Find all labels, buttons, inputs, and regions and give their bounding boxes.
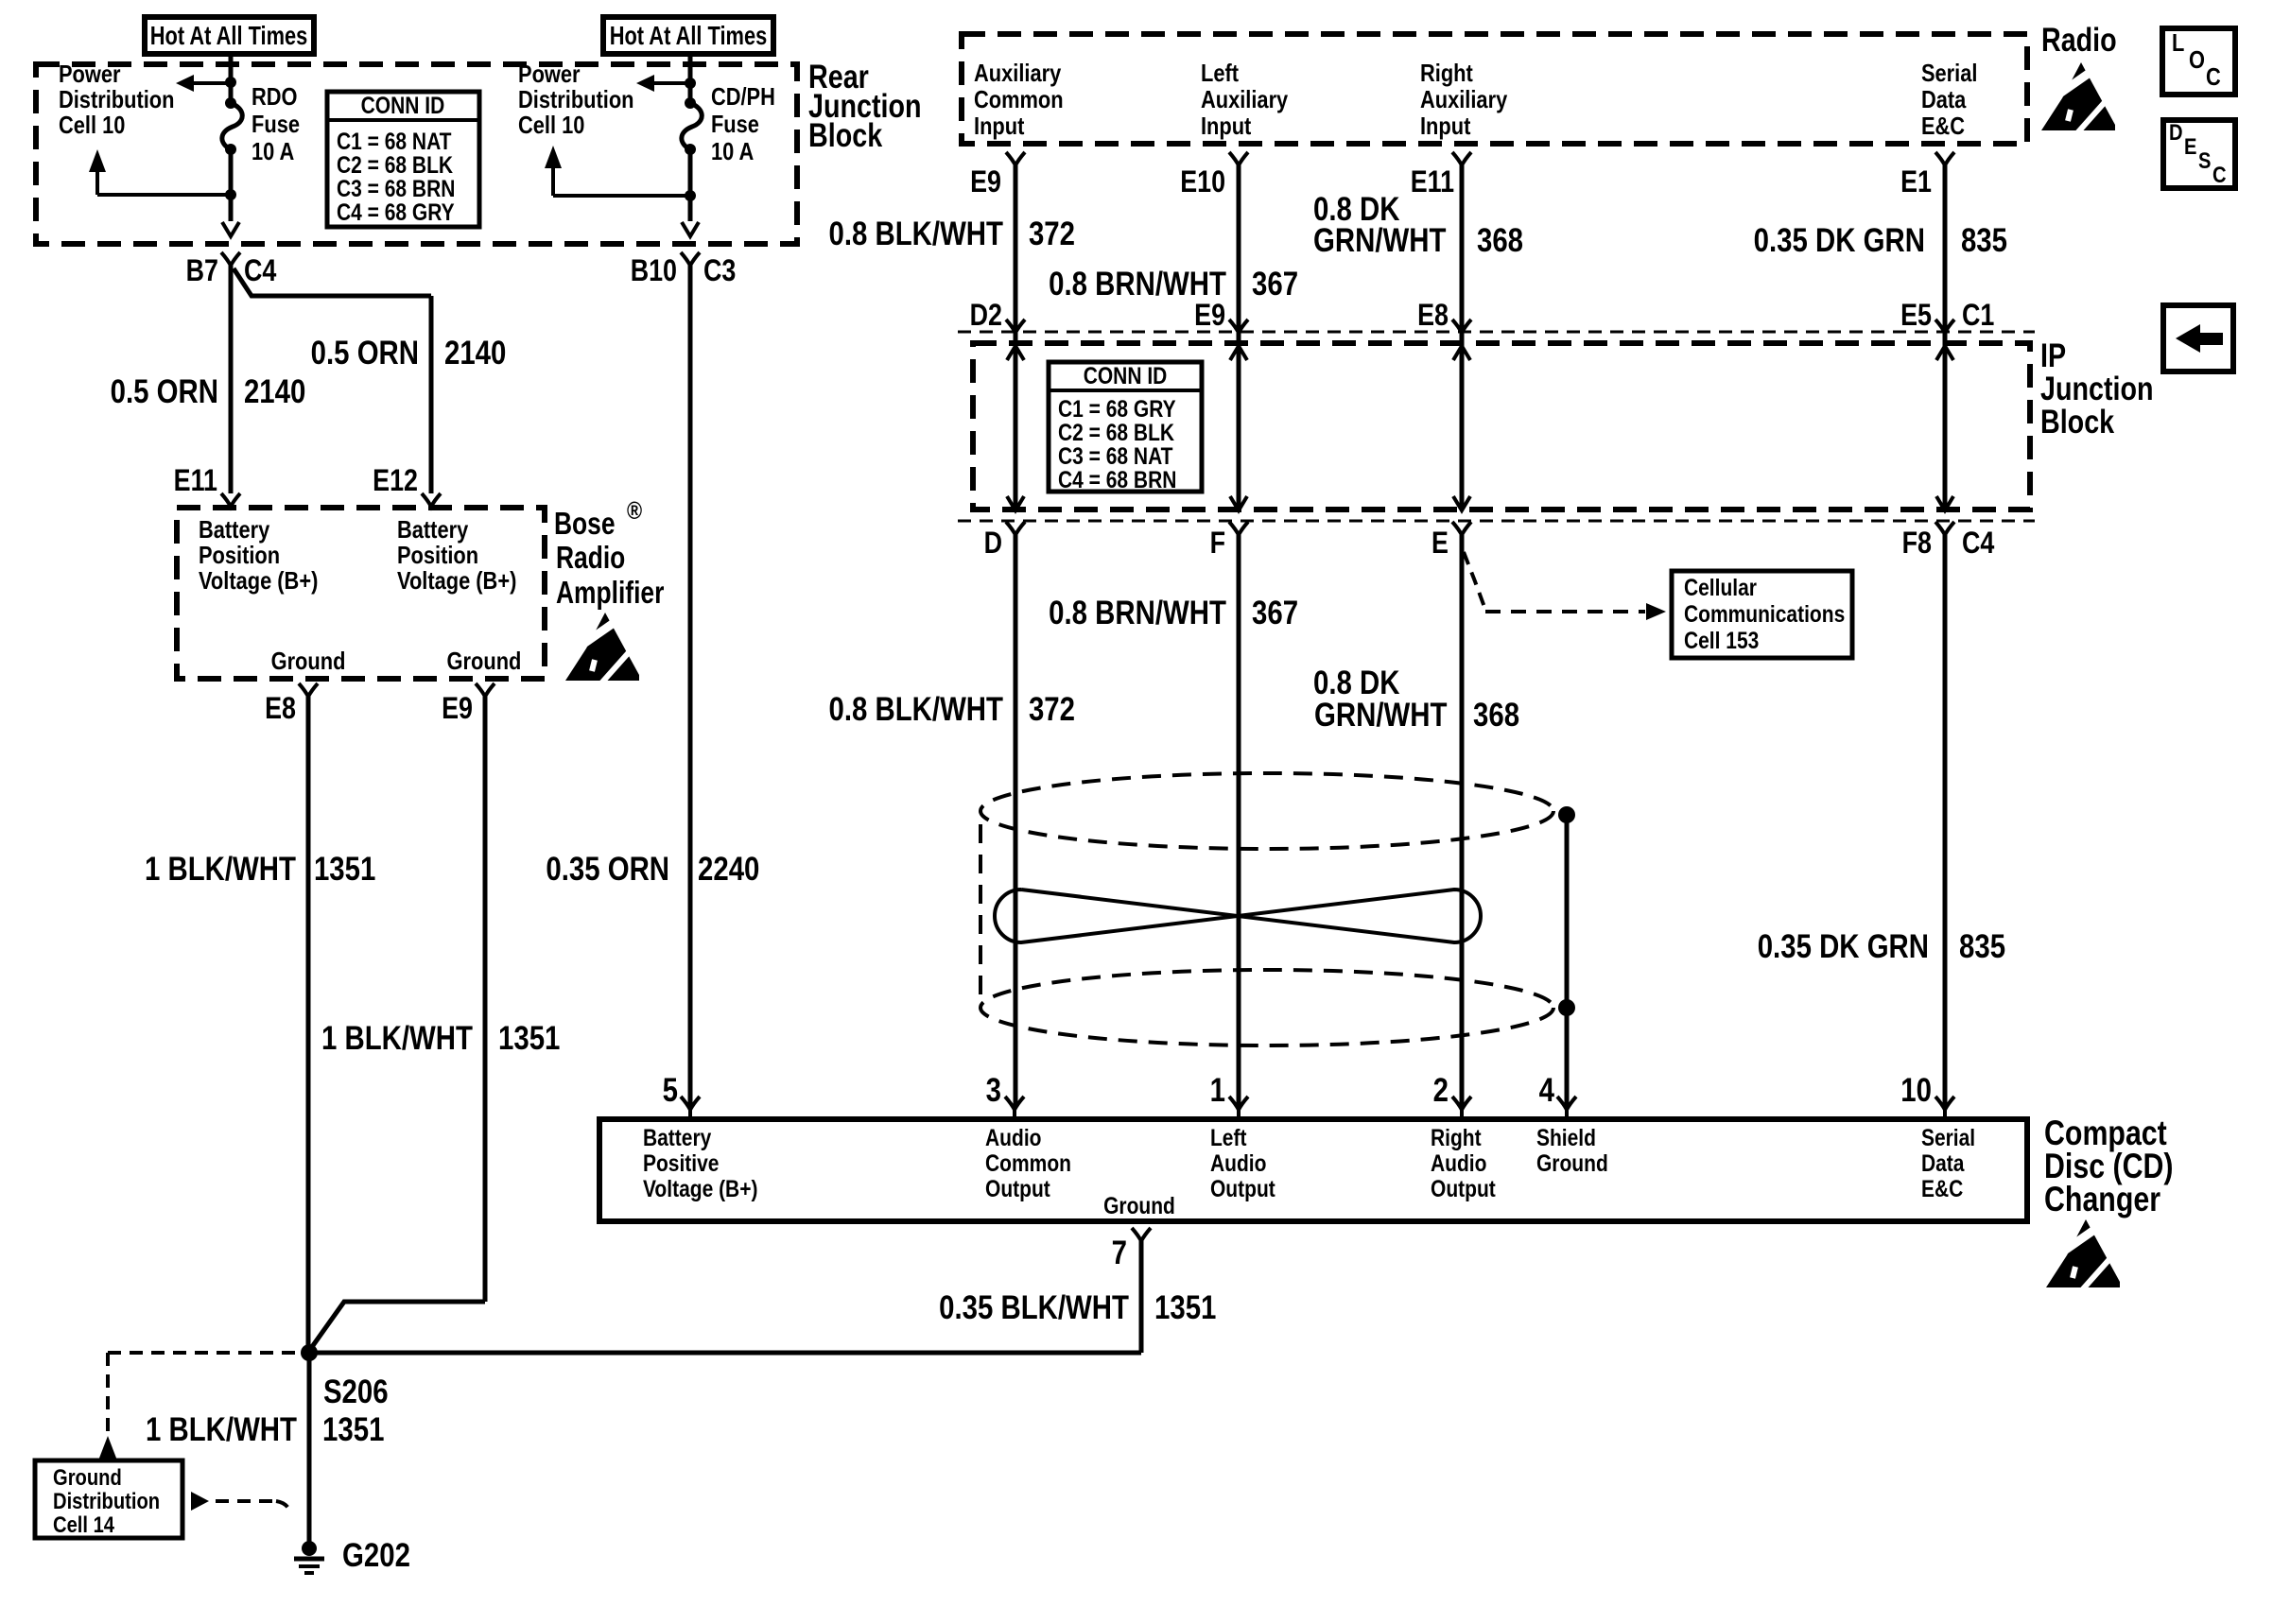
svg-text:C1 = 68 NAT: C1 = 68 NAT — [337, 128, 452, 154]
svg-text:®: ® — [627, 497, 642, 525]
svg-text:Serial: Serial — [1921, 1124, 1975, 1150]
svg-text:1351: 1351 — [1154, 1289, 1216, 1326]
svg-text:Position: Position — [199, 542, 280, 569]
svg-text:S206: S206 — [323, 1373, 389, 1410]
svg-text:E&C: E&C — [1921, 1175, 1964, 1201]
svg-text:Common: Common — [985, 1149, 1071, 1176]
svg-text:2140: 2140 — [244, 373, 305, 410]
svg-text:F8: F8 — [1902, 527, 1932, 561]
svg-text:Block: Block — [2040, 403, 2114, 440]
svg-text:C4: C4 — [244, 254, 277, 288]
svg-text:Distribution: Distribution — [59, 86, 174, 113]
svg-text:Communications: Communications — [1684, 600, 1845, 627]
svg-text:C2 = 68 BLK: C2 = 68 BLK — [337, 151, 453, 178]
svg-text:Voltage (B+): Voltage (B+) — [397, 567, 516, 595]
svg-text:Hot At All Times: Hot At All Times — [150, 21, 308, 50]
svg-text:Left: Left — [1201, 60, 1239, 87]
svg-text:1351: 1351 — [314, 851, 375, 888]
svg-text:Fuse: Fuse — [711, 111, 759, 138]
svg-text:Amplifier: Amplifier — [556, 576, 665, 610]
svg-text:Data: Data — [1921, 1149, 1965, 1176]
svg-text:Battery: Battery — [643, 1124, 711, 1150]
svg-text:Auxiliary: Auxiliary — [1201, 86, 1289, 113]
svg-text:1: 1 — [1210, 1072, 1225, 1109]
svg-text:1 BLK/WHT: 1 BLK/WHT — [321, 1020, 473, 1057]
svg-text:4: 4 — [1539, 1072, 1554, 1109]
svg-text:0.5 ORN: 0.5 ORN — [311, 335, 419, 371]
svg-text:E9: E9 — [970, 165, 1001, 199]
svg-text:D: D — [984, 527, 1002, 561]
svg-text:C1: C1 — [1962, 299, 1994, 333]
svg-text:E9: E9 — [1194, 299, 1225, 333]
svg-text:C4: C4 — [1962, 527, 1995, 561]
svg-text:G202: G202 — [342, 1537, 410, 1574]
svg-text:Ground: Ground — [1103, 1192, 1175, 1218]
svg-text:O: O — [2189, 46, 2205, 74]
svg-text:C2 = 68 BLK: C2 = 68 BLK — [1058, 419, 1174, 445]
svg-text:Serial: Serial — [1921, 60, 1977, 87]
svg-text:Block: Block — [808, 116, 882, 153]
svg-text:GRN/WHT: GRN/WHT — [1314, 697, 1448, 734]
svg-text:Cellular: Cellular — [1684, 574, 1757, 600]
svg-text:E11: E11 — [174, 464, 217, 498]
svg-text:D: D — [2169, 119, 2183, 145]
svg-text:E5: E5 — [1900, 299, 1932, 333]
svg-text:E&C: E&C — [1921, 112, 1965, 140]
svg-text:Common: Common — [974, 86, 1064, 113]
svg-text:E10: E10 — [1180, 165, 1225, 199]
svg-text:CONN ID: CONN ID — [1084, 362, 1168, 389]
svg-text:C: C — [2206, 63, 2221, 91]
svg-text:Radio: Radio — [556, 541, 625, 575]
svg-text:0.35 BLK/WHT: 0.35 BLK/WHT — [939, 1289, 1129, 1326]
svg-text:Voltage (B+): Voltage (B+) — [643, 1175, 758, 1201]
svg-text:1351: 1351 — [322, 1411, 384, 1448]
svg-text:Battery: Battery — [199, 516, 270, 544]
svg-text:372: 372 — [1029, 216, 1075, 252]
svg-text:368: 368 — [1477, 222, 1523, 259]
svg-text:D2: D2 — [970, 299, 1002, 333]
svg-text:C4 = 68 GRY: C4 = 68 GRY — [337, 199, 455, 225]
svg-text:RDO: RDO — [252, 83, 298, 111]
svg-text:Output: Output — [985, 1175, 1050, 1201]
svg-text:10 A: 10 A — [252, 138, 294, 165]
svg-text:7: 7 — [1112, 1235, 1127, 1271]
svg-text:2140: 2140 — [444, 335, 506, 371]
svg-text:Distribution: Distribution — [518, 86, 633, 113]
svg-text:E8: E8 — [1417, 299, 1449, 333]
svg-text:IP: IP — [2040, 337, 2066, 373]
svg-text:Auxiliary: Auxiliary — [974, 60, 1062, 87]
svg-text:Audio: Audio — [1431, 1149, 1486, 1176]
svg-text:E11: E11 — [1411, 165, 1454, 199]
svg-text:E: E — [2184, 133, 2196, 159]
svg-text:Ground: Ground — [271, 648, 346, 675]
svg-text:Radio: Radio — [2041, 21, 2117, 58]
svg-text:C3: C3 — [703, 254, 736, 288]
svg-text:Right: Right — [1431, 1124, 1482, 1150]
svg-text:367: 367 — [1252, 595, 1298, 631]
svg-text:0.8 BLK/WHT: 0.8 BLK/WHT — [828, 691, 1003, 728]
svg-text:368: 368 — [1473, 697, 1519, 734]
svg-text:Ground: Ground — [53, 1464, 122, 1490]
svg-text:F: F — [1210, 527, 1225, 561]
svg-text:Position: Position — [397, 542, 478, 569]
svg-text:Shield: Shield — [1536, 1124, 1596, 1150]
svg-text:L: L — [2172, 29, 2184, 57]
svg-text:0.8 BRN/WHT: 0.8 BRN/WHT — [1049, 595, 1226, 631]
svg-text:372: 372 — [1029, 691, 1075, 728]
svg-text:1 BLK/WHT: 1 BLK/WHT — [146, 1411, 297, 1448]
svg-text:Changer: Changer — [2044, 1180, 2160, 1219]
svg-text:Cell 10: Cell 10 — [59, 112, 125, 139]
svg-text:Audio: Audio — [1210, 1149, 1266, 1176]
svg-text:Output: Output — [1210, 1175, 1275, 1201]
svg-text:C4 = 68 BRN: C4 = 68 BRN — [1058, 466, 1176, 492]
svg-text:C3 = 68 NAT: C3 = 68 NAT — [1058, 442, 1173, 469]
svg-text:Battery: Battery — [397, 516, 469, 544]
svg-text:0.5 ORN: 0.5 ORN — [111, 373, 218, 410]
svg-text:1 BLK/WHT: 1 BLK/WHT — [145, 851, 296, 888]
svg-text:835: 835 — [1961, 222, 2007, 259]
svg-text:Auxiliary: Auxiliary — [1420, 86, 1508, 113]
svg-text:C1 = 68 GRY: C1 = 68 GRY — [1058, 395, 1176, 422]
svg-text:Cell 153: Cell 153 — [1684, 627, 1759, 653]
svg-text:Power: Power — [59, 60, 121, 88]
svg-text:E12: E12 — [373, 464, 418, 498]
svg-text:10: 10 — [1900, 1072, 1932, 1109]
svg-text:Hot At All Times: Hot At All Times — [610, 21, 768, 50]
svg-text:Input: Input — [974, 112, 1024, 140]
svg-text:Output: Output — [1431, 1175, 1496, 1201]
svg-text:0.8 BLK/WHT: 0.8 BLK/WHT — [828, 216, 1003, 252]
svg-text:0.35 DK GRN: 0.35 DK GRN — [1754, 222, 1925, 259]
svg-text:1351: 1351 — [498, 1020, 560, 1057]
svg-text:C: C — [2212, 162, 2227, 187]
svg-text:367: 367 — [1252, 266, 1298, 302]
svg-text:Power: Power — [518, 60, 581, 88]
svg-text:Cell 14: Cell 14 — [53, 1512, 115, 1537]
svg-text:Data: Data — [1921, 86, 1967, 113]
svg-text:B10: B10 — [631, 254, 677, 288]
svg-text:0.35 ORN: 0.35 ORN — [546, 851, 669, 888]
svg-text:Ground: Ground — [1536, 1149, 1608, 1176]
svg-text:E8: E8 — [265, 692, 296, 726]
svg-text:Bose: Bose — [554, 507, 616, 541]
svg-text:835: 835 — [1959, 928, 2005, 965]
svg-text:Left: Left — [1210, 1124, 1247, 1150]
svg-text:Cell 10: Cell 10 — [518, 112, 584, 139]
svg-text:5: 5 — [663, 1072, 678, 1109]
svg-text:E9: E9 — [442, 692, 473, 726]
svg-text:Audio: Audio — [985, 1124, 1041, 1150]
svg-text:Positive: Positive — [643, 1149, 720, 1176]
svg-text:B7: B7 — [186, 254, 218, 288]
svg-text:Right: Right — [1420, 60, 1473, 87]
svg-text:Voltage (B+): Voltage (B+) — [199, 567, 318, 595]
svg-text:GRN/WHT: GRN/WHT — [1313, 222, 1447, 259]
svg-text:10 A: 10 A — [711, 138, 754, 165]
svg-text:Input: Input — [1201, 112, 1251, 140]
svg-text:CONN ID: CONN ID — [361, 92, 445, 118]
svg-text:Junction: Junction — [2040, 370, 2154, 406]
svg-text:2240: 2240 — [698, 851, 759, 888]
svg-text:0.35 DK GRN: 0.35 DK GRN — [1758, 928, 1929, 965]
svg-text:CD/PH: CD/PH — [711, 83, 775, 111]
svg-text:2: 2 — [1433, 1072, 1449, 1109]
svg-text:Input: Input — [1420, 112, 1470, 140]
svg-text:0.8 BRN/WHT: 0.8 BRN/WHT — [1049, 266, 1226, 302]
svg-text:Ground: Ground — [447, 648, 522, 675]
svg-text:S: S — [2198, 147, 2211, 173]
svg-text:C3 = 68 BRN: C3 = 68 BRN — [337, 175, 455, 201]
svg-text:E1: E1 — [1900, 165, 1932, 199]
svg-text:E: E — [1431, 527, 1449, 561]
svg-text:Distribution: Distribution — [53, 1488, 160, 1513]
svg-text:Fuse: Fuse — [252, 111, 300, 138]
svg-text:3: 3 — [986, 1072, 1001, 1109]
